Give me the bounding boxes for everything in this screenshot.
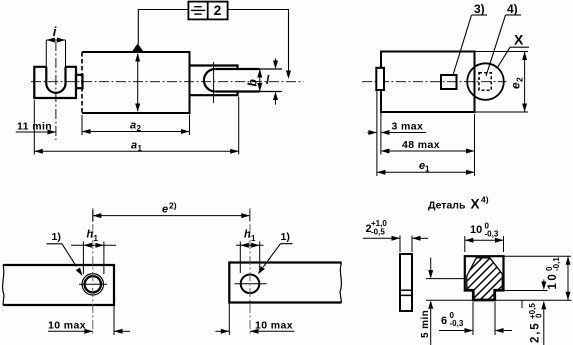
svg-text:4): 4): [481, 195, 489, 205]
svg-text:3): 3): [474, 2, 485, 16]
svg-text:e: e: [162, 204, 168, 216]
svg-text:-0,3: -0,3: [485, 230, 499, 239]
svg-text:4): 4): [507, 2, 518, 16]
svg-text:X: X: [471, 197, 480, 212]
svg-text:X: X: [514, 32, 524, 48]
svg-text:-0,1: -0,1: [552, 257, 561, 271]
svg-text:Деталь: Деталь: [428, 200, 466, 212]
svg-text:2: 2: [137, 124, 142, 133]
svg-text:2): 2): [169, 201, 177, 211]
svg-text:10 max: 10 max: [255, 320, 293, 332]
svg-text:i: i: [53, 24, 57, 39]
svg-text:10: 10: [470, 224, 482, 236]
svg-text:1: 1: [251, 234, 256, 243]
svg-text:-0,3: -0,3: [450, 319, 464, 328]
svg-text:5 min: 5 min: [420, 310, 431, 338]
svg-text:-0,5: -0,5: [371, 228, 385, 237]
svg-text:1): 1): [52, 231, 61, 243]
svg-text:1: 1: [138, 144, 143, 153]
svg-text:h: h: [87, 229, 94, 241]
svg-text:e: e: [509, 82, 523, 89]
svg-text:a: a: [131, 140, 137, 152]
svg-text:10 max: 10 max: [48, 320, 86, 332]
svg-text:1: 1: [94, 234, 99, 243]
svg-text:a: a: [130, 120, 136, 132]
svg-text:10: 10: [547, 272, 559, 290]
svg-text:1: 1: [425, 165, 430, 174]
svg-text:0: 0: [535, 313, 544, 318]
svg-text:2: 2: [214, 3, 222, 18]
svg-text:b: b: [246, 79, 260, 86]
svg-text:1): 1): [281, 231, 290, 243]
svg-text:2: 2: [515, 77, 525, 82]
svg-text:3 max: 3 max: [392, 121, 424, 133]
svg-text:48 max: 48 max: [402, 139, 440, 151]
svg-text:h: h: [244, 229, 251, 241]
svg-text:2,5: 2,5: [530, 322, 542, 343]
svg-text:6: 6: [441, 315, 447, 327]
